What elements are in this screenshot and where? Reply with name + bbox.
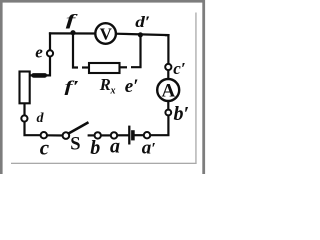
wire f' circle to Rx box bbox=[83, 66, 89, 68]
svg-text:a′: a′ bbox=[142, 137, 156, 158]
junction f bbox=[70, 30, 75, 35]
wire a to battery bbox=[117, 134, 128, 136]
svg-text:d: d bbox=[37, 111, 45, 126]
page border left bbox=[0, 0, 3, 174]
label d' bbox=[135, 12, 150, 30]
svg-text:e′: e′ bbox=[125, 76, 139, 97]
terminal b' bbox=[165, 110, 171, 116]
svg-text:A: A bbox=[162, 80, 176, 101]
svg-text:V: V bbox=[100, 25, 113, 44]
svg-text:c: c bbox=[40, 135, 50, 159]
page border top bbox=[0, 0, 205, 3]
terminal e bbox=[47, 50, 53, 56]
svg-text:b: b bbox=[90, 137, 100, 159]
battery long plate bbox=[128, 126, 130, 145]
svg-text:e: e bbox=[35, 43, 43, 62]
wire c to switch bbox=[47, 134, 63, 136]
svg-text:b′: b′ bbox=[174, 103, 190, 125]
page border right bbox=[202, 0, 205, 174]
svg-text:R: R bbox=[99, 75, 111, 94]
switch S blade bbox=[69, 122, 89, 133]
rheostat slider bar bbox=[34, 73, 45, 78]
svg-text:f′: f′ bbox=[65, 78, 80, 95]
terminal c bbox=[41, 132, 47, 138]
wire battery to a' bbox=[135, 134, 144, 136]
figure box bottom edge bbox=[11, 163, 197, 164]
wire switch to b bbox=[89, 134, 95, 136]
wire c' up to top right corner bbox=[166, 35, 168, 64]
terminal d bbox=[21, 115, 27, 121]
ammeter A bbox=[157, 79, 179, 101]
svg-text:x: x bbox=[110, 86, 116, 97]
svg-text:d′: d′ bbox=[135, 12, 150, 30]
battery short plate bbox=[131, 130, 135, 140]
wire e' to d' riser bbox=[132, 35, 140, 67]
wire b to a bbox=[101, 134, 111, 136]
wire Rx box to e' circle bbox=[121, 66, 126, 68]
svg-text:S: S bbox=[70, 134, 80, 154]
rheostat body bbox=[20, 72, 30, 104]
wire b' to ammeter bbox=[167, 101, 169, 110]
switch S pivot bbox=[63, 132, 70, 139]
wire ammeter to c' bbox=[167, 70, 169, 79]
resistor Rx box bbox=[89, 63, 120, 73]
wire top left segment bbox=[50, 32, 95, 34]
svg-text:c′: c′ bbox=[173, 59, 185, 78]
terminal a bbox=[111, 132, 117, 138]
terminal c' bbox=[165, 64, 171, 70]
wire a' to bottom right corner and up to b' bbox=[150, 115, 168, 135]
wire top right segment bbox=[116, 34, 169, 35]
label f bbox=[66, 11, 78, 28]
figure box right edge bbox=[195, 13, 196, 164]
wire rheostat bottom to d bbox=[23, 105, 25, 116]
terminal a' bbox=[144, 132, 150, 138]
wire f down to Rx branch corner bbox=[73, 34, 77, 68]
voltmeter V bbox=[95, 23, 116, 44]
wire e to slider corner bbox=[31, 56, 50, 75]
svg-text:a: a bbox=[110, 136, 120, 158]
wire left drop to e bbox=[49, 33, 51, 50]
junction d' bbox=[138, 32, 143, 37]
terminal b bbox=[95, 132, 101, 138]
label f' bbox=[65, 78, 80, 95]
wire d to bottom left corner bbox=[25, 122, 41, 136]
